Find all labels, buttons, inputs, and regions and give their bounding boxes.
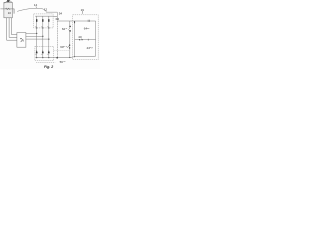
tick on middle wire xyxy=(87,39,89,41)
junction dot bottom right xyxy=(69,57,70,58)
leg3 mid wire xyxy=(48,28,50,46)
svg-text:54: 54 xyxy=(59,12,63,16)
right inner vertical xyxy=(95,21,97,56)
wire through generator at y=8.9 xyxy=(0,8,14,10)
svg-text:12: 12 xyxy=(44,8,48,12)
phase wire A xyxy=(26,32,37,34)
SCR leg3 top xyxy=(47,16,50,28)
junction mark below top-left corner xyxy=(74,21,76,23)
leg1 mid wire xyxy=(36,28,38,46)
top feed wire from generator xyxy=(17,8,57,16)
generator phase stub b xyxy=(9,18,17,38)
generator box 10 xyxy=(4,2,12,17)
svg-text:14: 14 xyxy=(34,3,38,7)
field box glyph xyxy=(20,38,23,42)
leg2 mid wire xyxy=(42,28,44,46)
leader 19 xyxy=(81,11,83,14)
top rail in rectifier xyxy=(35,15,57,17)
leader 62 xyxy=(66,28,68,30)
SCR leg2 top xyxy=(41,16,44,28)
node dot A xyxy=(36,33,37,34)
diode leg1 bottom xyxy=(35,46,38,58)
leader 56 xyxy=(63,61,65,63)
svg-text:44: 44 xyxy=(87,46,91,50)
rectifier dashed box xyxy=(34,14,53,28)
phase wire C xyxy=(26,38,49,40)
contact ticks on top wire xyxy=(88,20,89,22)
stub 16 xyxy=(13,9,15,14)
bottom-left junction dot xyxy=(74,56,75,57)
svg-text:40: 40 xyxy=(78,35,82,39)
control dashed box xyxy=(73,15,99,60)
diode leg3 bottom xyxy=(47,46,50,58)
flag ornament on generator box xyxy=(7,0,10,2)
SCR leg1 top xyxy=(35,16,38,28)
svg-text:60: 60 xyxy=(60,45,64,49)
left inner vertical xyxy=(74,21,76,57)
capacitor plates 54 xyxy=(56,17,59,20)
top bus wire to control box xyxy=(57,20,95,22)
field box xyxy=(17,33,26,48)
inverter dashed box xyxy=(35,46,54,60)
component 60 xyxy=(66,45,71,49)
phase wire B xyxy=(26,35,43,37)
winding squiggle on generator wire xyxy=(6,8,11,10)
DC bus vertical 54 xyxy=(56,16,58,57)
contact 40 xyxy=(79,39,83,41)
bottom rail xyxy=(35,56,95,57)
leader 60 xyxy=(63,46,64,48)
leader 14 xyxy=(35,6,37,8)
diode leg2 bottom xyxy=(41,46,44,58)
svg-text:Fig. 2: Fig. 2 xyxy=(44,65,53,69)
diagonal strokes at generator top xyxy=(4,1,12,4)
resistor string vertical xyxy=(69,21,71,58)
node dot C xyxy=(48,38,49,39)
generator phase stub a xyxy=(7,18,17,40)
dashed control link xyxy=(54,49,70,51)
component 62 xyxy=(69,26,71,32)
leader 64 xyxy=(87,27,89,30)
leader 44 xyxy=(90,46,93,49)
svg-text:56: 56 xyxy=(60,60,64,64)
generator phase stub c xyxy=(12,18,17,35)
middle wire with contact 40 xyxy=(75,39,96,41)
node dot B xyxy=(42,36,43,37)
outer dashed boundary segment xyxy=(36,61,55,63)
svg-text:10: 10 xyxy=(8,11,12,15)
junction dot bottom center xyxy=(56,57,58,59)
svg-text:62: 62 xyxy=(62,27,66,31)
